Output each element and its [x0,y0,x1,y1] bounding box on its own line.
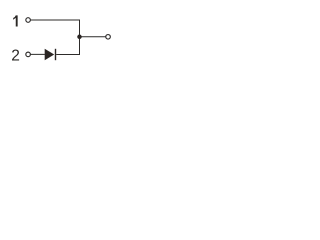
svg-text:2: 2 [11,47,20,64]
